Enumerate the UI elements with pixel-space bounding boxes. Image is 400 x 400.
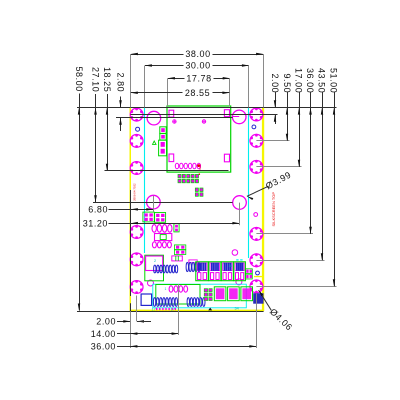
extension line row4 hole right [256, 233, 313, 235]
svg-text:2.80: 2.80 [115, 73, 125, 93]
pad block right of ICs [245, 269, 252, 279]
big pads bottom right [214, 287, 252, 301]
svg-text:2.00: 2.00 [96, 317, 116, 327]
mechanical layer line left (30mm ref) [144, 108, 146, 254]
svg-text:27.10: 27.10 [90, 67, 100, 92]
dimension 27.10 [95, 94, 97, 202]
module pad top-left [169, 110, 174, 117]
blue cap square [141, 294, 152, 305]
red ref tiny [197, 164, 200, 167]
connector J1 green body [156, 285, 200, 305]
magnetics coil in J1 [169, 286, 188, 292]
board outline left edge [130, 108, 132, 311]
svg-text:17.00: 17.00 [294, 68, 304, 93]
board outline right edge [262, 108, 264, 311]
IC bank U2-U5 [196, 262, 246, 281]
module U1 silkscreen outline [167, 106, 231, 172]
extension line row3 hole right [256, 166, 301, 168]
via blue small top-left [136, 127, 140, 131]
module pad bottom-left [169, 154, 174, 162]
teal labels [152, 308, 156, 312]
via blue right [252, 125, 256, 129]
mounting hole MR5 [250, 253, 263, 267]
pad row 0000 (row2) [152, 225, 172, 233]
coil W2 [186, 262, 200, 271]
extension line row2 hole right [256, 140, 289, 142]
svg-text:14.00: 14.00 [91, 329, 116, 339]
component L1 [155, 234, 172, 241]
index triangle [208, 308, 212, 311]
via magenta mid-right [254, 213, 258, 217]
cyan tick marks [236, 259, 238, 260]
mounting hole ML5 [130, 252, 143, 266]
mounting hole ML1 [130, 108, 143, 122]
extension line 27.10 target [93, 202, 233, 204]
extension line row5 hole right [256, 260, 324, 262]
mounting hole MR4 [250, 227, 263, 241]
pad block B2 [155, 213, 166, 223]
extension line board left edge mid [130, 190, 132, 296]
fiducial circle bottom-right [236, 279, 242, 285]
svg-text:30.00: 30.00 [185, 61, 210, 71]
svg-text:6.80: 6.80 [88, 204, 108, 214]
svg-text:R20: R20 [198, 164, 202, 170]
component C2 [160, 134, 166, 140]
red ref R20 [198, 164, 202, 170]
leader diameter 4.06 [259, 290, 272, 310]
svg-text:18.25: 18.25 [102, 67, 112, 92]
hole top-left (unplated) [147, 111, 161, 125]
via magenta tiny [172, 120, 176, 124]
svg-text:28.55: 28.55 [185, 88, 210, 98]
leader diameter 3.99 [247, 186, 269, 196]
svg-text:1: 1 [165, 287, 167, 291]
connector J1 outline (cyan) [153, 284, 247, 308]
svg-text:JB06-04-7032: JB06-04-7032 [133, 183, 137, 201]
module pad top-right [224, 110, 229, 117]
mounting hole MR2 [250, 134, 263, 148]
dimension 2.80 [120, 97, 122, 108]
hole top-right (unplated) [232, 110, 246, 124]
dimension 18.25 [107, 94, 109, 171]
svg-text:SILKSCREEN TOP: SILKSCREEN TOP [271, 192, 276, 227]
mounting hole MR3 [250, 160, 263, 174]
extension line board left edge bottom [130, 303, 132, 311]
dimension 28.55 [131, 92, 183, 94]
red layer label SILKSCREEN TOP [271, 192, 276, 227]
extension line row6 hole right [256, 286, 336, 288]
component C1 [160, 127, 166, 134]
bottom pin ticks [156, 308, 176, 310]
dimension 38.00 [131, 54, 184, 56]
svg-text:2: 2 [154, 259, 156, 263]
coil W4 [187, 298, 205, 307]
board outline notch segment [254, 276, 264, 277]
mounting hole MR6 [250, 279, 263, 293]
blue filled pad [253, 293, 263, 304]
coil W1 [154, 265, 178, 273]
svg-text:36.00: 36.00 [305, 68, 315, 93]
pad block B1 [143, 212, 154, 222]
svg-text:9.50: 9.50 [282, 74, 292, 94]
svg-text:31.20: 31.20 [83, 218, 108, 228]
svg-text:38.00: 38.00 [185, 49, 210, 59]
wire tick at top-right hole [232, 116, 239, 118]
hole mid-right diameter 3.99 [233, 196, 247, 210]
via magenta r3 top of IC area [232, 250, 238, 256]
extension line 18.25 target [105, 170, 229, 172]
extension line row1 holes [130, 114, 277, 116]
bottom edge reference line [77, 311, 264, 313]
mounting hole ML3 [130, 161, 143, 175]
red part number text [133, 183, 137, 201]
pad strip above coil W2 [189, 260, 197, 263]
component R1 body [159, 140, 167, 156]
mounting hole ML6 [130, 280, 143, 294]
mechanical layer line right (30mm ref) [248, 108, 250, 259]
small pad grid bottom [204, 289, 212, 301]
pad row J2 [175, 163, 200, 169]
svg-text:58.00: 58.00 [74, 67, 84, 92]
resistor R5 [172, 256, 183, 261]
extension line 2.80 target [116, 117, 233, 119]
svg-text:2.00: 2.00 [270, 74, 280, 94]
mounting hole ML2 [130, 134, 143, 148]
svg-text:16: 16 [229, 264, 233, 268]
via blue small right [256, 271, 260, 275]
svg-text:36.00: 36.00 [91, 342, 116, 352]
fiducial circle bottom-left [148, 280, 154, 286]
silkscreen triangle marker [153, 141, 157, 144]
mounting hole MR1 [250, 108, 263, 122]
pad row 0000 (row3) [152, 242, 171, 248]
top edge reference line [77, 107, 337, 109]
board outline bottom edge [130, 310, 265, 311]
svg-text:34: 34 [235, 307, 239, 311]
transformer T1 [145, 255, 164, 281]
svg-text:51.00: 51.00 [329, 68, 339, 93]
pad diamond P1 [202, 120, 206, 124]
pad block B4 grid [174, 245, 185, 255]
coil W3 [153, 298, 177, 307]
mounting hole ML4 [130, 225, 143, 239]
dimension 17.78 [168, 78, 185, 80]
pad grid J3 [178, 174, 203, 196]
svg-text:43.50: 43.50 [317, 68, 327, 93]
module pad bottom-right [224, 154, 229, 162]
pad block B3 [174, 224, 179, 232]
hole mid-left diameter 3.99 [147, 195, 161, 209]
dimension 30.00 [145, 65, 184, 67]
svg-text:17.78: 17.78 [186, 73, 211, 83]
